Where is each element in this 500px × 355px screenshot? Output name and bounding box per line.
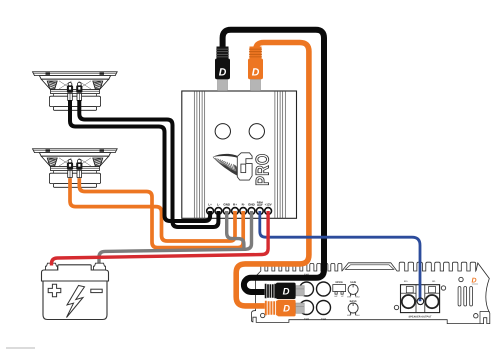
- speaker terminal right: [77, 159, 82, 177]
- svg-text:D: D: [283, 304, 290, 315]
- terminal R- with label: [240, 203, 247, 215]
- speaker magnet: [53, 171, 55, 174]
- wire +12V from converter to battery positive (red): [52, 211, 269, 266]
- converter RCA input jack left: [215, 124, 230, 139]
- converter left heatsink lines: [194, 91, 204, 218]
- terminal GND with label: [248, 203, 256, 215]
- speaker basket: [41, 79, 109, 90]
- converter logo wing inner shade: [233, 164, 239, 177]
- speaker frame top flange: [33, 72, 118, 110]
- battery body: [43, 281, 107, 320]
- svg-text:MODE: MODE: [335, 281, 343, 284]
- speaker spider bar: [51, 90, 100, 94]
- svg-text:BASS: BASS: [350, 300, 357, 303]
- svg-text:D: D: [219, 66, 227, 78]
- speaker vent window right: [93, 158, 103, 166]
- battery plus symbol: [48, 284, 61, 297]
- amplifier top tab inner line: [345, 265, 394, 270]
- speaker vent window right: [93, 81, 103, 89]
- speaker magnet: [53, 94, 55, 97]
- svg-text:GAIN: GAIN: [350, 281, 356, 284]
- battery positive post: [46, 263, 58, 270]
- speaker terminal left: [67, 159, 72, 177]
- RCA plug tip into converter left: [218, 79, 228, 91]
- speaker terminal left: [67, 82, 72, 100]
- speaker gasket: [39, 153, 110, 157]
- svg-text:MAX: MAX: [355, 314, 360, 317]
- svg-text:GND: GND: [223, 203, 231, 207]
- svg-text:+12V: +12V: [265, 203, 272, 207]
- amplifier A1 body outline: [252, 262, 490, 323]
- amplifier BASS knob: [348, 303, 358, 313]
- svg-text:PRO: PRO: [253, 153, 273, 185]
- wire GND1 from converter joining ground run (gray): [227, 211, 244, 250]
- svg-text:D: D: [283, 286, 290, 297]
- svg-text:MIN: MIN: [347, 314, 351, 317]
- converter logo wing feathers: [213, 157, 239, 176]
- converter logo letter G: [237, 153, 252, 180]
- speaker basket: [41, 156, 109, 167]
- converter right heatsink lines: [275, 91, 285, 218]
- battery top cap: [42, 265, 109, 281]
- amplifier RCA jacks CH1-CH4: [300, 282, 331, 315]
- wire speaker2 left terminal to R+ (orange): [70, 178, 235, 241]
- amplifier right foot inner line: [480, 312, 490, 324]
- RCA plug orange at amp: [265, 300, 296, 317]
- terminal +12V with label: [265, 203, 272, 215]
- RCA plug orange on converter: [248, 47, 263, 80]
- terminal L+ with label: [207, 203, 214, 215]
- speaker gasket: [39, 76, 110, 80]
- stray gray mark bottom-left: [6, 347, 35, 349]
- terminal L- with label: [215, 203, 222, 215]
- svg-text:SPEAKER OUTPUT: SPEAKER OUTPUT: [408, 315, 432, 318]
- svg-text:OUT: OUT: [257, 204, 263, 207]
- svg-text:MAX: MAX: [355, 295, 360, 298]
- terminal REM OUT with label: [256, 201, 263, 214]
- battery B1: [42, 263, 109, 319]
- RCA plug black at amp: [265, 283, 296, 299]
- speaker SPK2 (bottom subwoofer): [33, 149, 118, 187]
- speaker vent window left: [47, 158, 57, 166]
- converter RCA input jack right: [249, 124, 264, 139]
- amplifier MODE switch: [333, 285, 346, 295]
- wire GND2 from converter to battery negative (gray): [99, 211, 252, 264]
- speaker vent window left: [47, 81, 57, 89]
- converter unit U1 body: [182, 91, 297, 218]
- speaker terminal right: [77, 82, 82, 100]
- wire speaker1 right terminal to L- (black): [79, 100, 218, 227]
- svg-text:CH4: CH4: [321, 318, 327, 321]
- svg-text:D: D: [252, 66, 260, 78]
- battery negative post: [94, 263, 106, 270]
- speaker bottom plate: [53, 107, 96, 111]
- speaker SPK1 (top subwoofer): [33, 72, 118, 110]
- battery lightning bolt: [67, 286, 85, 318]
- RCA plug black on converter: [215, 47, 230, 80]
- wire REM OUT converter to amp speaker output (blue): [260, 211, 420, 301]
- speaker frame top flange: [33, 149, 118, 187]
- amplifier GAIN knob: [348, 284, 358, 294]
- amplifier screw holes: [261, 275, 478, 318]
- RCA plug tip into converter right: [251, 79, 261, 91]
- RCA plug tip into amp CH1: [296, 286, 305, 296]
- converter logo wing blade: [213, 154, 243, 160]
- svg-text:BR-: BR-: [432, 280, 436, 283]
- svg-text:R+: R+: [233, 203, 237, 207]
- RCA cable black (converter top to amp CH1): [223, 30, 324, 292]
- svg-text:CH3: CH3: [304, 318, 310, 321]
- wire speaker2 right terminal to R- (orange): [79, 178, 243, 247]
- wire speaker1 left terminal to L+ (black): [70, 100, 210, 221]
- svg-text:L+: L+: [208, 203, 212, 207]
- battery minus symbol: [91, 289, 102, 292]
- svg-text:BR+: BR+: [404, 280, 409, 283]
- RCA plug tip into amp CH3: [296, 303, 305, 313]
- amplifier cooling slots: [458, 287, 472, 307]
- svg-text:MIN: MIN: [347, 295, 351, 298]
- speaker spider bar: [51, 167, 100, 171]
- amplifier speaker output block: [401, 285, 440, 313]
- terminal R+ with label: [232, 203, 239, 215]
- svg-text:GND: GND: [248, 203, 256, 207]
- speaker bottom plate: [53, 184, 96, 188]
- svg-text:R-: R-: [242, 203, 245, 207]
- terminal GND with label: [223, 203, 231, 215]
- RCA cable orange (converter top to amp CH3): [236, 43, 309, 306]
- svg-text:D: D: [472, 278, 477, 285]
- svg-text:L-: L-: [217, 203, 220, 207]
